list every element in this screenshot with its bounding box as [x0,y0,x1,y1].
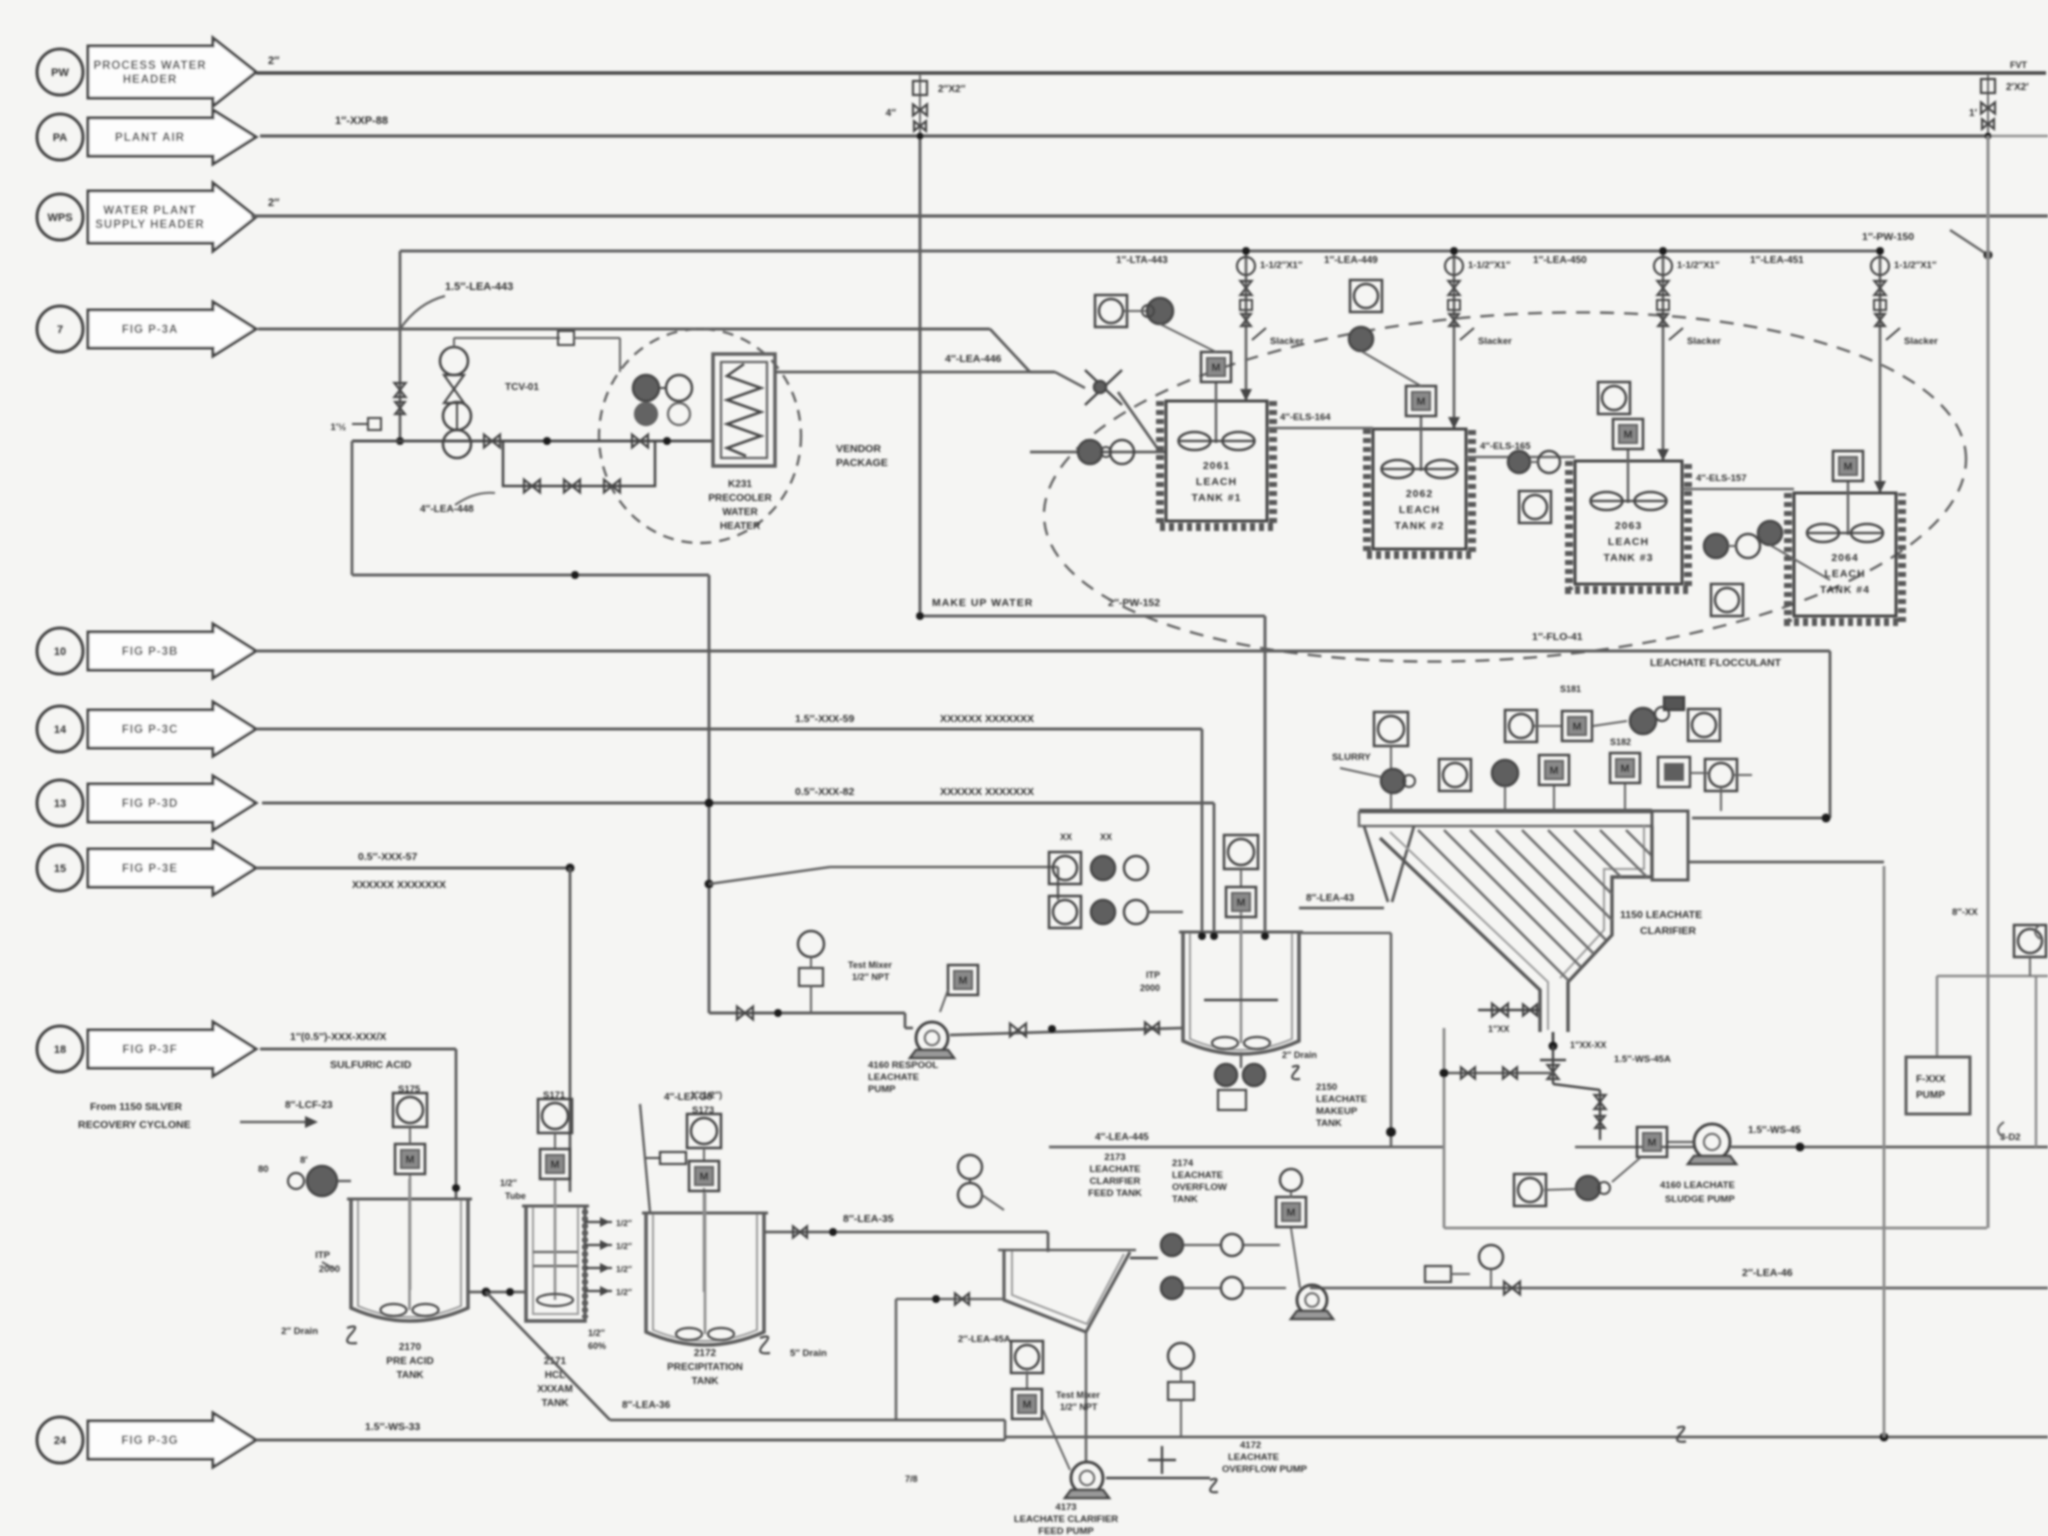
mix tank agitator [554,1178,557,1300]
right vertical line x=1988 [1987,136,1990,1228]
svg-text:PLANT AIR: PLANT AIR [115,132,185,144]
off-page connector 18 FIG P-3F [37,1022,256,1076]
svg-text:1150 LEACHATE: 1150 LEACHATE [1620,909,1702,921]
svg-text:F-XXX: F-XXX [1916,1074,1946,1085]
instruments T2 area [1350,280,1382,312]
svg-text:PW: PW [51,67,69,79]
PSV circles [443,402,471,430]
relief fittings at 920 top [919,75,921,136]
svg-text:1/2″: 1/2″ [616,1218,632,1228]
svg-text:TANK #1: TANK #1 [1192,492,1242,504]
svg-text:1″(0.5″)-XXX-XXX/X: 1″(0.5″)-XXX-XXX/X [290,1031,386,1043]
svg-text:XXXXXX XXXXXXX: XXXXXX XXXXXXX [940,786,1034,798]
svg-text:M: M [699,1171,708,1183]
clarifier left wall [1380,838,1540,1032]
mix tank 2171 [526,1206,585,1321]
svg-text:0.5″-XXX-57: 0.5″-XXX-57 [358,851,417,863]
svg-text:2063: 2063 [1615,520,1642,532]
svg-text:4″-LEA-448: 4″-LEA-448 [420,504,474,515]
pipe: process water header y=73 [256,71,2046,75]
svg-text:2″X2″: 2″X2″ [938,84,966,95]
svg-text:FVT: FVT [2010,60,2028,70]
svg-text:LEACH: LEACH [1196,476,1237,488]
svg-text:M: M [1843,461,1852,473]
make-up water drop x=920 [919,136,922,616]
heater inlet pipe y=441 [352,440,713,443]
svg-text:2064: 2064 [1831,552,1858,564]
svg-text:RECOVERY CYCLONE: RECOVERY CYCLONE [78,1119,191,1131]
svg-text:1″XX-XX: 1″XX-XX [1570,1040,1606,1050]
svg-text:1-1/2″X1″: 1-1/2″X1″ [1894,260,1937,271]
svg-text:SLUDGE PUMP: SLUDGE PUMP [1665,1194,1735,1205]
flocculant drop [1829,651,1832,818]
leach area dashed boundary [1032,283,1978,691]
svg-text:PUMP: PUMP [868,1084,896,1095]
svg-text:1″XX: 1″XX [1488,1024,1509,1034]
svg-text:1″-LEA-450: 1″-LEA-450 [1533,255,1587,266]
svg-text:1″-FLO-41: 1″-FLO-41 [1532,631,1583,643]
off-page pump box right [1937,975,2048,978]
instruments left of T1 [1095,295,1127,327]
feed line into leach tank 1 [1030,451,1166,454]
crossing valve X [1085,370,1122,405]
svg-text:13: 13 [54,798,66,810]
off-page connector WPS water plant supply header [37,183,256,251]
svg-text:WPS: WPS [47,212,72,224]
svg-text:M: M [1416,396,1425,408]
svg-text:8″-LEA-35: 8″-LEA-35 [843,1213,894,1225]
svg-text:Test Mixer: Test Mixer [1056,1390,1100,1400]
feed well [1364,826,1414,902]
svg-text:15: 15 [54,863,66,875]
svg-text:M: M [1022,1399,1031,1411]
acid to mix line [468,1291,526,1294]
instruments T3 area [1598,382,1630,414]
svg-text:TANK #3: TANK #3 [1604,552,1654,564]
svg-text:18: 18 [54,1044,66,1056]
svg-text:XXXAM: XXXAM [537,1384,573,1395]
svg-text:2174: 2174 [1172,1158,1194,1169]
svg-text:1/2″: 1/2″ [500,1178,518,1188]
svg-text:WATER: WATER [722,507,758,518]
svg-text:1″-LEA-449: 1″-LEA-449 [1324,255,1378,266]
off-page connector PW process water header [37,38,256,106]
svg-text:14: 14 [54,724,67,736]
makeup tank to clarifier feed label [1198,932,1206,940]
svg-text:Slacker: Slacker [1904,336,1938,347]
gray vertical x=1884 [1883,866,1886,1437]
svg-text:7: 7 [57,324,63,336]
feed drop to leach tank 3 [1662,251,1665,461]
svg-text:1/2″ NPT: 1/2″ NPT [852,972,890,982]
pipe FIG P-3F y=1049 [260,1048,456,1051]
acid tank 2170 [351,1199,468,1321]
vendor package dashed boundary [599,329,801,543]
svg-text:SLURRY: SLURRY [1332,752,1371,763]
svg-text:4160 LEACHATE: 4160 LEACHATE [1660,1180,1735,1191]
pump train into makeup tank y=1013 [709,1012,905,1015]
svg-text:1.5″-LEA-443: 1.5″-LEA-443 [445,281,513,293]
small symbols right edge y=930 [2035,925,2040,939]
svg-text:FIG P-3F: FIG P-3F [122,1044,177,1056]
svg-text:FIG P-3G: FIG P-3G [121,1435,178,1447]
svg-text:LEACHATE: LEACHATE [1228,1452,1279,1463]
svg-text:LEACHATE: LEACHATE [1089,1164,1140,1175]
pipe: water plant supply y=216 [251,214,2048,217]
svg-text:LEACH: LEACH [1399,504,1440,516]
svg-text:1-1/2″X1″: 1-1/2″X1″ [1677,260,1720,271]
svg-text:4172: 4172 [1240,1440,1261,1451]
svg-text:2173: 2173 [1104,1152,1125,1163]
svg-text:Slacker: Slacker [1478,336,1512,347]
PI + fitting on lower line [1479,1245,1503,1269]
off-page connector 10 FIG P-3B [37,624,256,678]
pipe from FIG P-3A y=329 [258,328,990,331]
svg-text:PRECIPITATION: PRECIPITATION [667,1362,743,1373]
clarifier instruments row 2 [1381,769,1405,793]
enclosure box left/bottom [1443,1028,1446,1228]
svg-text:TANK #4: TANK #4 [1820,584,1870,596]
off-page connector 7 FIG P-3A [37,302,256,356]
svg-text:2062: 2062 [1406,488,1433,500]
svg-text:PA: PA [53,132,68,144]
svg-text:1.5″-WS-33: 1.5″-WS-33 [365,1421,420,1433]
svg-text:8″-LCF-23: 8″-LCF-23 [285,1100,333,1111]
svg-text:VENDOR: VENDOR [836,443,881,455]
svg-text:0.5″-XXX-82: 0.5″-XXX-82 [795,786,854,798]
svg-text:1-1/2″X1″: 1-1/2″X1″ [1260,260,1303,271]
svg-text:M: M [1211,362,1220,374]
svg-text:1/2″: 1/2″ [588,1328,606,1338]
svg-text:8′: 8′ [300,1155,308,1166]
leachate overflow tank 2174 [1004,1250,1130,1332]
feed drop to leach tank 1 [1245,251,1248,401]
transfer line T2-T3 [1466,456,1575,459]
svg-text:FEED PUMP: FEED PUMP [1038,1526,1094,1536]
svg-text:XX: XX [1100,832,1112,842]
svg-text:M: M [1620,763,1629,775]
svg-text:ITP: ITP [1146,970,1160,980]
pipe FIG P-3C y=729 [256,728,1202,731]
svg-text:S173: S173 [692,1105,714,1116]
svg-text:1′½: 1′½ [331,422,347,433]
svg-text:5″ Drain: 5″ Drain [790,1348,827,1359]
clarifier underflow [1552,1032,1555,1046]
svg-text:24: 24 [54,1435,67,1447]
svg-text:2″: 2″ [268,197,280,209]
svg-text:PUMP: PUMP [1916,1090,1945,1101]
svg-text:1.5″-WS-45: 1.5″-WS-45 [1748,1125,1801,1136]
gauges by heater [633,375,659,401]
svg-text:TANK: TANK [396,1370,424,1381]
svg-text:FIG P-3B: FIG P-3B [122,646,179,658]
precip outlet to overflow tank [764,1231,1048,1234]
svg-text:PACKAGE: PACKAGE [836,457,888,469]
svg-text:S182: S182 [1610,737,1631,747]
svg-text:XXXXXX XXXXXXX: XXXXXX XXXXXXX [352,879,446,891]
make-up water horizontal y=616 [920,615,1265,618]
svg-text:2150: 2150 [1316,1082,1337,1093]
clarifier feed pump 4173 [1085,1332,1088,1462]
svg-text:M: M [1623,429,1632,441]
svg-text:4″-ELS-157: 4″-ELS-157 [1696,473,1747,484]
svg-text:CLARIFIER: CLARIFIER [1090,1176,1141,1187]
leach tank T2 [1367,386,1472,555]
svg-text:Test Mixer: Test Mixer [848,960,892,970]
svg-text:4″-LEA-446: 4″-LEA-446 [945,353,1002,365]
svg-text:TANK: TANK [1316,1118,1342,1129]
down pipe x=709 [708,575,711,1013]
signal to FE box [453,338,455,347]
acid tank inlet pump [307,1166,337,1196]
svg-text:HEADER: HEADER [123,74,178,86]
svg-text:OVERFLOW: OVERFLOW [1172,1182,1227,1193]
off-page connector 24 FIG P-3G [37,1413,256,1467]
bypass loop [503,441,655,486]
rake diagonals [1418,830,1569,981]
off-page connector 13 FIG P-3D [37,776,256,830]
right-edge relief fittings x=1988 [1987,75,1989,136]
diagonal to leach feed [990,329,1030,372]
makeup tank drain cluster [1240,1052,1243,1068]
svg-text:1.5″-XXX-59: 1.5″-XXX-59 [795,713,854,725]
svg-text:M: M [1572,721,1581,733]
svg-text:XXXXXX XXXXXXX: XXXXXX XXXXXXX [940,713,1034,725]
svg-text:LEACHATE FLOCCULANT: LEACHATE FLOCCULANT [1650,657,1782,669]
feed drop to leach tank 2 [1453,251,1456,429]
pipe FIG P-3D y=803 [262,802,1214,805]
svg-text:S181: S181 [1560,684,1581,694]
instruments left [958,1155,982,1179]
svg-text:K231: K231 [728,479,752,490]
off-page connector 14 FIG P-3C [37,702,256,756]
instruments below-left of pump [1514,1174,1546,1206]
svg-text:TANK: TANK [1172,1194,1198,1205]
svg-text:1-1/2″X1″: 1-1/2″X1″ [1468,260,1511,271]
mix tank nozzles right [585,1221,612,1223]
svg-text:2′X2′: 2′X2′ [2006,82,2029,93]
acid tank drain [347,1326,357,1343]
svg-text:M: M [1549,765,1558,777]
svg-text:60%: 60% [588,1341,606,1351]
makeup tank inlet instruments cluster [1049,852,1081,884]
leach tank T4 [1788,451,1902,622]
svg-text:LEACHATE: LEACHATE [868,1072,919,1083]
overflow pump M + pump [1276,1197,1306,1227]
svg-text:PROCESS WATER: PROCESS WATER [93,60,206,72]
svg-text:TCV-01: TCV-01 [505,382,539,393]
svg-text:1″(1/2″): 1″(1/2″) [690,1090,722,1100]
svg-text:M: M [1286,1207,1295,1219]
precipitation tank 2172 [646,1213,764,1345]
svg-text:2000: 2000 [1140,983,1160,993]
acid tank agitator [409,1174,412,1290]
svg-text:PRE ACID: PRE ACID [386,1356,433,1367]
svg-text:OVERFLOW PUMP: OVERFLOW PUMP [1222,1464,1308,1475]
bottom line y=1147 [1049,1146,1444,1149]
svg-text:LEACHATE: LEACHATE [1172,1170,1223,1181]
pipe FIG P-3B to flocculant y=651 [256,650,1830,653]
svg-text:1/2″: 1/2″ [616,1264,632,1274]
off-page connector 15 FIG P-3E [37,841,256,895]
svg-text:1/2″: 1/2″ [616,1241,632,1251]
feed drop to leach tank 4 [1879,251,1882,493]
svg-text:Slacker: Slacker [1270,336,1304,347]
svg-text:MAKE UP WATER: MAKE UP WATER [932,597,1033,609]
svg-text:1″-LEA-451: 1″-LEA-451 [1750,255,1804,266]
heater return line y=575 [352,574,709,577]
svg-text:MAKEUP: MAKEUP [1316,1106,1358,1117]
svg-text:SULFURIC ACID: SULFURIC ACID [330,1059,412,1071]
svg-text:4″: 4″ [886,108,897,119]
sludge pump 4160 [1694,1124,1730,1160]
leach tank T1 [1160,352,1273,527]
heater outlet to right [775,371,1055,374]
svg-text:M: M [405,1154,414,1166]
heater K231 coil [713,354,775,466]
svg-text:1/2″: 1/2″ [616,1287,632,1297]
pipe FIG P-3E y=868 [256,867,570,870]
svg-text:LEACHATE CLARIFIER: LEACHATE CLARIFIER [1014,1514,1118,1525]
respool pump [905,1027,913,1030]
svg-text:2172: 2172 [694,1348,717,1359]
svg-text:4173: 4173 [1055,1502,1076,1513]
fittings left of precip agitator [660,1152,686,1164]
svg-text:2″: 2″ [268,55,280,67]
branch to respool suction y=867 [705,880,714,889]
suction lines to pumps [1130,1257,1158,1259]
svg-text:Tube: Tube [505,1191,526,1201]
svg-text:M: M [1647,1137,1656,1149]
overflow box right [1652,811,1688,880]
svg-text:M: M [958,975,967,987]
leach tank T3 [1569,419,1688,590]
vertical drop x=400 [399,251,402,441]
svg-text:7/8: 7/8 [905,1474,918,1484]
svg-text:CLARIFIER: CLARIFIER [1640,925,1696,937]
svg-text:FIG P-3A: FIG P-3A [122,324,179,336]
svg-text:From 1150 SILVER: From 1150 SILVER [90,1101,182,1113]
svg-text:XX: XX [1060,832,1072,842]
svg-text:10: 10 [54,646,66,658]
leachate makeup tank [1183,932,1299,1054]
svg-text:2061: 2061 [1203,460,1230,472]
svg-text:8″-LEA-36: 8″-LEA-36 [622,1400,671,1411]
svg-text:M: M [1236,897,1245,909]
svg-text:PRECOOLER: PRECOOLER [708,493,772,504]
svg-text:S175: S175 [398,1084,421,1095]
svg-text:HEATER: HEATER [720,521,761,532]
line down to bottom header [486,1292,610,1420]
svg-text:1/2″ NPT: 1/2″ NPT [1060,1402,1098,1412]
svg-text:1″-XXP-88: 1″-XXP-88 [335,115,388,127]
1150 leachate clarifier [1359,809,1652,814]
svg-text:4″-LEA-445: 4″-LEA-445 [1095,1132,1149,1143]
clarifier right wall [1568,826,1652,1032]
pipe: leach water header y=251 [400,250,1881,253]
svg-text:LEACH: LEACH [1824,568,1865,580]
instruments T4 area [1758,521,1782,545]
svg-text:FIG P-3C: FIG P-3C [122,724,179,736]
svg-text:FIG P-3E: FIG P-3E [122,863,178,875]
svg-text:8″-XX: 8″-XX [1952,907,1978,918]
transfer line T1-T2 [1267,427,1373,430]
svg-text:FEED TANK: FEED TANK [1088,1188,1142,1199]
svg-text:4″-ELS-164: 4″-ELS-164 [1280,412,1331,423]
svg-text:LEACH: LEACH [1608,536,1649,548]
pipe: plant air y=136 [260,134,1988,137]
svg-text:2″ Drain: 2″ Drain [1282,1050,1317,1060]
cross fitting [1575,1146,1694,1149]
svg-text:SUPPLY HEADER: SUPPLY HEADER [95,219,205,231]
svg-text:TANK #2: TANK #2 [1395,520,1445,532]
svg-text:1″-LTA-443: 1″-LTA-443 [1116,255,1168,266]
svg-text:4160 RESPOOL: 4160 RESPOOL [868,1060,938,1071]
line from feed pump across [896,1298,1004,1301]
makeup tank right line down [1299,932,1391,935]
make-up water drop x=1265 [1264,616,1267,936]
clarifier top instruments [1374,712,1408,746]
svg-text:LEACHATE: LEACHATE [1316,1094,1367,1105]
svg-text:TANK: TANK [541,1398,569,1409]
underflow line to sludge pump [1444,1072,1553,1075]
svg-text:2″ Drain: 2″ Drain [281,1326,318,1337]
svg-text:4″-ELS-165: 4″-ELS-165 [1480,441,1531,452]
svg-text:2170: 2170 [399,1342,422,1353]
svg-text:TANK: TANK [691,1376,719,1387]
svg-text:ITP: ITP [315,1250,330,1261]
line 2-LEA-46 y=1288 [1310,1287,2048,1290]
svg-text:2″-LEA-45A: 2″-LEA-45A [958,1334,1011,1345]
svg-text:2″-PW-152: 2″-PW-152 [1108,597,1160,609]
svg-text:80: 80 [258,1164,269,1175]
svg-text:FIG P-3D: FIG P-3D [122,798,179,810]
svg-text:Slacker: Slacker [1687,336,1721,347]
svg-text:1.5″-WS-45A: 1.5″-WS-45A [1614,1054,1671,1065]
svg-text:1′: 1′ [1969,108,1978,119]
svg-text:8″-LEA-43: 8″-LEA-43 [1306,893,1355,904]
off-page connector PA plant air [37,110,256,164]
bottom long line y=1420/1437 [610,1419,1005,1422]
svg-text:S171: S171 [543,1090,566,1101]
control valve PCV [440,347,468,375]
svg-text:WATER PLANT: WATER PLANT [103,205,196,217]
transfer line T3-T4 [1682,488,1794,491]
svg-text:M: M [550,1159,559,1171]
svg-text:1″-PW-150: 1″-PW-150 [1862,231,1914,243]
svg-text:2″-LEA-46: 2″-LEA-46 [1742,1267,1793,1279]
